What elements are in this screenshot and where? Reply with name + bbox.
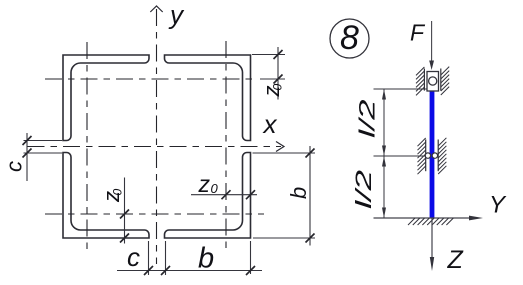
- svg-text:0: 0: [271, 84, 285, 91]
- dimension l/2 lower: dimension line: [383, 156, 385, 218]
- svg-text:Z: Z: [447, 246, 464, 274]
- centroid line horizontal bottom: [45, 213, 264, 215]
- svg-text:F: F: [410, 20, 426, 46]
- svg-text:x: x: [262, 109, 278, 139]
- dimension l/2 lower: top arrowhead: [382, 156, 386, 167]
- dimension z0 bottom-right: tick 1: [222, 190, 231, 199]
- centroid line vertical left: [86, 42, 88, 253]
- scheme number circle: [330, 19, 369, 58]
- dimension z0 top right: tick 2: [274, 75, 283, 84]
- dimension l/2 upper: bottom arrowhead: [382, 146, 386, 157]
- Y axis arrowhead: [469, 216, 483, 221]
- svg-text:Y: Y: [489, 192, 507, 219]
- dimension z0 bottom-left: dimension line: [124, 178, 126, 244]
- x axis arrow: [276, 142, 284, 152]
- mid support left hatching: [418, 138, 426, 174]
- Z axis line: [431, 218, 433, 262]
- dimension z0 bottom-right: dimension line: [191, 194, 257, 196]
- dimension c-b bottom: extension line 2: [165, 241, 167, 275]
- ground hatching: [408, 218, 453, 225]
- top support pin block: [427, 72, 439, 92]
- Z axis arrowhead: [430, 257, 434, 271]
- y axis centerline: [156, 9, 158, 264]
- svg-text:8: 8: [340, 19, 359, 57]
- dimension c-b bottom: tick 3: [246, 266, 255, 275]
- top support right hatching: [441, 67, 449, 95]
- dimension z0 top right: tick 1: [274, 50, 283, 59]
- dimension l/2 upper: top extension line: [374, 88, 427, 90]
- svg-text:b: b: [286, 187, 311, 199]
- angle section bottom-right: [165, 153, 251, 239]
- top support right wall: [440, 69, 442, 91]
- force F arrowhead: [429, 61, 434, 71]
- mid support right wall: [437, 140, 439, 172]
- dimension l/2 lower: mid extension line: [374, 155, 427, 157]
- dimension l/2 upper: top arrowhead: [382, 89, 386, 100]
- top support left wall: [423, 69, 425, 91]
- top support left hatching: [416, 67, 424, 95]
- dimension z0 bottom-right: tick 2: [246, 190, 255, 199]
- svg-text:0: 0: [111, 189, 125, 196]
- mid support left wall: [425, 140, 427, 172]
- dimension c left: dimension line: [26, 133, 28, 181]
- dimension z0 top right: extension of centroid line: [260, 78, 285, 80]
- angle section bottom-left: [63, 153, 149, 239]
- dimension c left: bottom extension line: [24, 152, 63, 154]
- svg-text:y: y: [168, 0, 185, 30]
- svg-text:l/2: l/2: [351, 170, 376, 209]
- rod (blue column): [430, 91, 435, 219]
- ground line / Y axis: [374, 217, 471, 219]
- angle section top-right: [165, 55, 251, 141]
- dimension b right: top extension line: [253, 152, 316, 154]
- dimension z0 bottom-left: tick 2: [120, 234, 129, 243]
- mid support roller left: [425, 153, 430, 158]
- dimension c left: top extension line: [24, 140, 63, 142]
- mid support roller right: [432, 153, 437, 158]
- dimension z0 bottom-left: tick 1: [120, 210, 129, 219]
- dimension b right: tick 1: [306, 149, 315, 158]
- dimension c-b bottom: tick 1: [144, 266, 153, 275]
- angle section top-left: [63, 55, 149, 141]
- dimension b right: tick 2: [306, 234, 315, 243]
- dimension c-b bottom: tick 2: [161, 266, 170, 275]
- svg-text:c: c: [127, 242, 140, 272]
- y axis arrow: [150, 6, 162, 12]
- dimension z0 top right: dimension line: [277, 47, 279, 100]
- mid support right hatching: [438, 138, 446, 174]
- svg-text:c: c: [2, 161, 27, 172]
- dimension l/2 lower: bottom arrowhead: [382, 208, 386, 219]
- dimension c-b bottom: dimension line: [117, 270, 262, 272]
- dimension b right: bottom extension line: [253, 237, 315, 239]
- dimension c-b bottom: extension line 3: [250, 241, 252, 274]
- top support pin circle: [429, 77, 437, 85]
- dimension c left: tick 1: [23, 136, 32, 145]
- force F line: [431, 21, 433, 65]
- centroid line vertical right: [225, 41, 227, 250]
- dimension c left: tick 2: [23, 149, 32, 158]
- svg-text:b: b: [198, 243, 214, 275]
- centroid line horizontal top: [45, 78, 257, 80]
- x axis centerline: [28, 146, 282, 148]
- dimension z0 top right: extension line: [252, 54, 285, 56]
- dimension l/2 upper: dimension line: [383, 89, 385, 156]
- svg-text:l/2: l/2: [356, 99, 380, 138]
- dimension b right: dimension line: [309, 146, 311, 246]
- dimension c-b bottom: extension line 1: [148, 241, 150, 275]
